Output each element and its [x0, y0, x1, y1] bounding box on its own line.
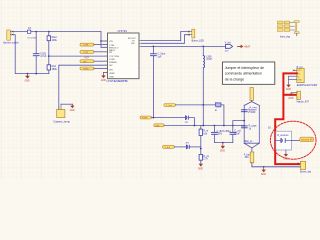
svg-text:Haube_INT: Haube_INT — [297, 100, 310, 103]
resistor Rsd — [47, 65, 57, 71]
resistor R_is — [199, 126, 209, 155]
ellipse highlight secours — [270, 121, 316, 159]
wire Tled to diode — [175, 104, 215, 106]
wire L300 down — [202, 68, 204, 126]
wire right branch — [258, 105, 260, 143]
wire C307 down — [152, 56, 154, 118]
svg-text:PWM: PWM — [142, 118, 148, 120]
svg-text:Jumper et interrupteur de: Jumper et interrupteur de — [225, 66, 264, 70]
svg-text:commande alimentation: commande alimentation — [225, 72, 262, 76]
svg-text:JG: JG — [268, 127, 271, 129]
port ISN — [154, 124, 164, 128]
fuse F_bat — [244, 148, 254, 163]
op-amp U300 LT3791 — [105, 29, 142, 83]
svg-text:PWM: PWM — [83, 69, 89, 71]
wire — [101, 40, 108, 42]
connector J302 Capteur_temp — [53, 104, 70, 123]
svg-text:47uH: 47uH — [206, 58, 212, 61]
wire balance tap — [233, 121, 244, 126]
wire temp pin2 to gnd — [61, 103, 72, 105]
ground GND bsol — [286, 76, 291, 91]
svg-text:180k: 180k — [52, 68, 58, 71]
power VEE at IC — [101, 72, 108, 81]
connector B_sol 4pin — [289, 67, 319, 87]
wire thick red main — [275, 73, 300, 164]
junction balance — [243, 120, 245, 122]
svg-text:de la charge: de la charge — [225, 77, 244, 81]
svg-text:R_secours: R_secours — [277, 134, 289, 137]
wire fuse to battery connector — [252, 163, 301, 167]
junction cout — [232, 125, 234, 127]
junction C307 bottom — [153, 117, 155, 119]
header 2x3 Inter_chg — [277, 21, 299, 39]
ground GND bat — [261, 166, 266, 176]
wire PWM to jumper — [151, 117, 185, 119]
svg-text:30A: 30A — [245, 156, 250, 159]
wire supercap branch split — [244, 102, 259, 106]
ground GND caps — [220, 143, 225, 153]
wire — [35, 56, 37, 74]
wire — [48, 32, 50, 36]
fuse F301 — [27, 28, 36, 39]
svg-text:4.7uF: 4.7uF — [40, 55, 47, 58]
port Mes_bat — [163, 145, 175, 149]
svg-text:GND: GND — [261, 174, 266, 176]
svg-text:LT3791: LT3791 — [118, 29, 128, 33]
svg-text:PWMIN: PWMIN — [109, 62, 117, 64]
capacitor C_bus — [212, 126, 232, 143]
node comment box — [223, 62, 275, 84]
capacitor C_sc2 — [241, 126, 257, 131]
port V_led out — [225, 42, 233, 53]
svg-text:T_led: T_led — [166, 105, 172, 107]
jumper box JP_sec — [276, 131, 292, 150]
svg-text:ISN: ISN — [156, 125, 160, 127]
junction cap bottom — [35, 73, 37, 75]
ground GND temp — [70, 104, 75, 112]
wire — [48, 70, 50, 74]
svg-text:LT3474ES8E8#PBF: LT3474ES8E8#PBF — [107, 80, 129, 83]
connector Haube_INT — [291, 91, 309, 103]
junction mid divider — [200, 148, 202, 150]
svg-text:Batt_sc: Batt_sc — [245, 140, 254, 143]
svg-text:EER3/Smah/7rk/9W: EER3/Smah/7rk/9W — [297, 84, 318, 87]
wire to jumper2 — [174, 146, 186, 148]
wire left branch — [243, 105, 245, 143]
capacitor C303 — [33, 52, 47, 58]
wire supercap bottom join — [244, 143, 259, 148]
svg-text:GND: GND — [109, 76, 114, 78]
svg-text:Capteur_temp: Capteur_temp — [53, 120, 70, 124]
wire jumper to rail — [189, 118, 195, 126]
port PWM_chg — [140, 116, 151, 120]
svg-text:Bornier_solaire: Bornier_solaire — [3, 41, 19, 44]
capacitor C_sc1 — [241, 110, 257, 115]
junction L — [202, 125, 204, 127]
junction cbus — [214, 125, 216, 127]
svg-text:35V: 35V — [218, 133, 223, 136]
wire caps bottom — [214, 142, 232, 144]
ground GND divider — [198, 164, 203, 171]
junction jp — [194, 125, 196, 127]
wire — [202, 46, 204, 55]
junction gnd — [27, 73, 29, 75]
wire TG to Borne_LED pin2 — [142, 35, 189, 44]
svg-text:GND: GND — [101, 80, 106, 82]
svg-text:+5V: +5V — [84, 55, 89, 59]
wire — [48, 41, 50, 65]
svg-text:ISP: ISP — [109, 65, 113, 67]
svg-text:GND: GND — [70, 110, 75, 112]
wire bus rail — [164, 125, 244, 127]
capacitor C307 — [151, 53, 166, 59]
svg-text:VIN: VIN — [109, 41, 113, 43]
svg-text:V_bat: V_bat — [164, 146, 170, 149]
svg-text:SYNC: SYNC — [109, 59, 115, 61]
svg-text:secours 5A: secours 5A — [301, 139, 313, 142]
resistor R_os — [199, 154, 210, 163]
port CTRL — [80, 43, 108, 47]
junction L bottom — [202, 104, 204, 106]
port FB — [80, 60, 108, 64]
svg-text:GND: GND — [198, 168, 203, 170]
wire temp sense to IC — [59, 65, 108, 109]
wire FB to IC — [49, 55, 108, 57]
svg-text:VCC: VCC — [298, 70, 303, 72]
wire top rail VIN — [13, 31, 101, 33]
wire solar minus down — [13, 35, 49, 74]
capacitor C_out — [230, 126, 241, 143]
junction diode — [223, 125, 225, 127]
inductor L300 — [203, 55, 212, 67]
svg-text:ISP: ISP — [83, 61, 87, 63]
port OTW — [80, 50, 108, 54]
wire diode to rail — [221, 105, 224, 126]
ground GND int — [288, 93, 293, 100]
wire jumper2 to divider — [190, 146, 201, 148]
svg-text:ISN: ISN — [109, 69, 113, 71]
svg-text:24V: 24V — [225, 51, 229, 53]
svg-text:GND: GND — [286, 89, 291, 91]
power +VBAT arrow — [237, 45, 250, 49]
junction gnd caps — [222, 142, 224, 144]
svg-text:2: 2 — [297, 97, 298, 99]
pin no-erc marks — [12, 31, 299, 164]
ground GND sec — [283, 150, 288, 161]
svg-text:Borne_LED: Borne_LED — [192, 39, 205, 42]
wire thick red branch INT — [283, 94, 296, 96]
svg-text:F_bat: F_bat — [244, 153, 250, 156]
svg-text:Borne_bat: Borne_bat — [300, 171, 311, 174]
junction L300 — [202, 46, 204, 48]
svg-text:1uF: 1uF — [157, 55, 162, 58]
port PWM — [80, 67, 108, 71]
jumper JP301 — [185, 116, 189, 124]
port Tled — [164, 104, 176, 108]
port secours — [300, 137, 314, 141]
diode D300 — [215, 101, 222, 112]
resistor Rled — [47, 36, 57, 42]
svg-text:0.5 1%A: 0.5 1%A — [27, 36, 36, 39]
svg-text:+BAT: +BAT — [244, 45, 251, 49]
wire — [35, 32, 37, 54]
svg-text:47uF: 47uF — [234, 133, 240, 136]
svg-text:2*100F: 2*100F — [248, 112, 256, 114]
svg-text:VREF: VREF — [109, 73, 115, 75]
wire SW to Borne_LED pin1 — [142, 32, 189, 41]
wire vin drop to IC — [101, 32, 108, 48]
svg-text:GND: GND — [220, 151, 225, 153]
junction cap branch — [35, 31, 37, 33]
junction vin pin — [100, 40, 102, 42]
svg-text:Inter_chg: Inter_chg — [280, 36, 291, 39]
junction FB node — [48, 55, 50, 57]
fuse F_caps top — [250, 88, 253, 102]
connector J301 Bornier_solaire — [3, 30, 19, 44]
svg-text:CTRL: CTRL — [83, 45, 89, 47]
wire Vout rail — [142, 45, 226, 47]
svg-text:Vin: Vin — [298, 73, 301, 75]
junction C307 — [153, 46, 155, 48]
svg-text:GND: GND — [25, 80, 30, 82]
svg-text:2.7k: 2.7k — [203, 158, 208, 161]
svg-text:GND: GND — [283, 159, 288, 161]
wire to port secours — [292, 140, 300, 142]
ground GND input — [25, 74, 30, 83]
svg-text:GND: GND — [298, 79, 303, 81]
svg-text:CTX TRIG: CTX TRIG — [109, 56, 119, 58]
svg-text:GND: GND — [288, 98, 293, 100]
junction resistor branch — [48, 31, 50, 33]
connector Borne_bat — [298, 161, 311, 173]
jumper JP302 — [185, 142, 190, 148]
svg-text:100k: 100k — [52, 39, 58, 42]
connector Borne_LED — [189, 29, 204, 42]
wire — [152, 46, 154, 53]
svg-text:1: 1 — [297, 93, 298, 95]
svg-text:B_caps: B_caps — [250, 107, 258, 109]
